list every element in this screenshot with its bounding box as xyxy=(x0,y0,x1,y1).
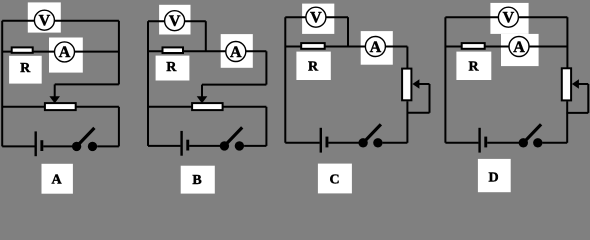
svg-text:V: V xyxy=(39,13,51,30)
wire: slider loop bottom return (C) xyxy=(407,112,430,114)
ammeter A3 white panel xyxy=(361,31,393,65)
ammeter A4 circle xyxy=(509,37,529,57)
wire: slider loop horizontal (D) xyxy=(578,83,588,85)
battery negative plate (short) xyxy=(326,137,329,148)
battery positive plate (long) xyxy=(180,131,182,156)
svg-text:V: V xyxy=(169,13,181,30)
wire: rheostat bottom to battery row (D) xyxy=(566,101,568,142)
ammeter A2 white panel xyxy=(221,34,253,68)
switch pivot contact dot xyxy=(358,138,367,147)
slider arrow onto rheostat xyxy=(49,96,60,103)
voltmeter V3 circle xyxy=(306,7,326,27)
answer label B panel xyxy=(181,166,215,194)
svg-text:V: V xyxy=(503,10,515,27)
wire: slider loop vertical (D) xyxy=(587,84,589,113)
battery positive plate (long) xyxy=(478,128,480,153)
ammeter A4 white panel xyxy=(501,34,539,66)
battery negative plate (short) xyxy=(40,140,43,151)
switch fixed contact dot xyxy=(533,138,542,147)
switch fixed contact dot xyxy=(235,141,244,150)
wire: left vertical rail (B) xyxy=(147,21,149,146)
slider arrow into rheostat (D) xyxy=(572,79,579,89)
answer label D panel xyxy=(478,159,511,192)
resistor R label panel (D) xyxy=(456,52,491,80)
wire: top horizontal through voltmeter (C) xyxy=(285,16,348,18)
switch lever arm xyxy=(525,124,541,141)
wire: right rail upper segment xyxy=(118,21,120,85)
wire: bottom left to battery xyxy=(2,145,34,147)
svg-text:A: A xyxy=(230,44,242,61)
wire: second row through R and ammeter xyxy=(2,51,119,53)
switch lever arm xyxy=(226,127,242,144)
rheostat body xyxy=(45,103,76,110)
wire: slider tap horizontal xyxy=(55,83,119,85)
svg-text:R: R xyxy=(308,59,319,74)
svg-text:A: A xyxy=(513,39,525,56)
svg-text:V: V xyxy=(310,10,322,27)
wire: top horizontal through voltmeter xyxy=(2,20,119,22)
switch pivot contact dot xyxy=(72,142,81,151)
resistor R body xyxy=(12,47,33,52)
svg-text:R: R xyxy=(20,61,31,76)
wire: right rail down to rheostat top (D) xyxy=(566,17,568,68)
switch lever arm xyxy=(78,128,94,145)
wire: switch to right rail (C) xyxy=(383,142,408,144)
voltmeter V4 circle xyxy=(498,7,518,27)
wire: rheostat row right xyxy=(76,106,119,108)
wire: rheostat row left (B) xyxy=(148,106,192,108)
battery negative plate (short) xyxy=(186,140,189,151)
voltmeter V4 white panel xyxy=(490,3,528,34)
switch fixed contact dot xyxy=(88,142,97,151)
rheostat body vertical (C) xyxy=(402,69,411,101)
wire: voltmeter right drop to R row (C) xyxy=(347,17,349,46)
wire: switch to right rail (B) xyxy=(244,145,266,147)
wire: battery to switch xyxy=(43,145,72,147)
wire: rheostat bottom to battery row (C) xyxy=(406,101,408,143)
resistor R label panel (C) xyxy=(296,52,330,80)
voltmeter V3 white panel xyxy=(302,4,334,34)
wire: left vertical rail (C) xyxy=(284,17,286,143)
wire: right rail lower segment (B) xyxy=(265,107,267,146)
wire: slider loop vertical (C) xyxy=(429,84,431,113)
svg-text:A: A xyxy=(51,173,62,188)
voltmeter V1 circle xyxy=(34,10,54,30)
wire: battery to switch (D) xyxy=(487,142,519,144)
resistor R body (C) xyxy=(301,43,325,49)
voltmeter V2 white panel xyxy=(159,5,190,35)
resistor R body (B) xyxy=(163,47,184,53)
wire: slider loop horizontal (C) xyxy=(419,83,430,85)
wire: slider tap horizontal (B) xyxy=(202,84,266,86)
slider arrow onto rheostat (B) xyxy=(197,96,208,103)
svg-text:A: A xyxy=(370,39,382,56)
svg-text:R: R xyxy=(468,59,479,74)
svg-text:A: A xyxy=(59,44,71,61)
ammeter A1 circle xyxy=(55,42,75,62)
wire: rheostat row left xyxy=(2,106,45,108)
wire: bottom left to battery (C) xyxy=(285,142,319,144)
svg-text:C: C xyxy=(329,173,339,188)
wire: switch to right rail xyxy=(97,145,119,147)
answer label C panel xyxy=(318,164,352,194)
switch fixed contact dot xyxy=(373,138,382,147)
resistor R body (D) xyxy=(462,43,485,49)
svg-text:B: B xyxy=(192,173,201,188)
switch pivot contact dot xyxy=(519,138,528,147)
wire: second row through R and ammeter (C) xyxy=(285,46,407,48)
battery negative plate (short) xyxy=(484,137,487,148)
battery positive plate (long) xyxy=(320,128,322,153)
ammeter A2 circle xyxy=(226,42,246,62)
voltmeter V2 circle xyxy=(165,11,185,31)
rheostat body vertical (D) xyxy=(562,68,571,100)
voltmeter V1 white panel xyxy=(28,2,61,32)
svg-text:D: D xyxy=(488,171,498,186)
wire: bottom left to battery (D) xyxy=(445,142,478,144)
slider arrow into rheostat (C) xyxy=(412,79,419,89)
wire: voltmeter right drop to R row (B) xyxy=(205,21,207,51)
resistor R label panel (B) xyxy=(156,56,190,81)
battery positive plate (long) xyxy=(35,131,37,156)
wire: slider loop bottom return (D) xyxy=(566,112,588,114)
wire: top horizontal through voltmeter (B) xyxy=(148,20,206,22)
wire: right rail lower segment xyxy=(118,107,120,147)
wire: slider tap vertical drop xyxy=(54,84,56,97)
ammeter A1 white panel xyxy=(49,38,83,73)
wire: battery to switch (B) xyxy=(189,145,220,147)
wire: bottom left to battery (B) xyxy=(148,145,180,147)
wire: left vertical rail (D) xyxy=(444,17,446,143)
svg-text:R: R xyxy=(166,60,177,75)
wire: switch to right rail (D) xyxy=(543,142,568,144)
switch lever arm xyxy=(365,124,381,141)
wire: slider tap vertical drop (B) xyxy=(201,85,203,97)
rheostat body (B) xyxy=(192,103,223,110)
answer label A panel xyxy=(42,164,73,194)
wire: top horizontal through voltmeter (D) xyxy=(445,16,567,18)
wire: top side (left vertical rail) xyxy=(1,21,3,147)
wire: battery to switch (C) xyxy=(328,142,358,144)
wire: second row through R and ammeter (B) xyxy=(148,50,266,52)
wire: right rail down to rheostat top (C) xyxy=(406,47,408,69)
resistor R label panel xyxy=(9,56,42,84)
wire: rheostat row right (B) xyxy=(223,106,267,108)
ammeter A3 circle xyxy=(365,37,385,57)
switch pivot contact dot xyxy=(220,141,229,150)
wire: right rail upper segment (B) xyxy=(265,51,267,84)
wire: second row through R and ammeter (D) xyxy=(445,46,567,48)
